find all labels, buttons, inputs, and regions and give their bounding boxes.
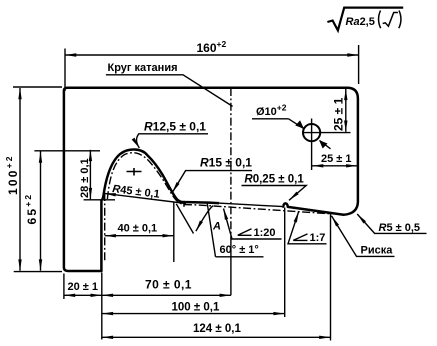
svg-text:124 ± 0,1: 124 ± 0,1 <box>193 323 241 335</box>
dim 160 extension right <box>358 45 360 84</box>
svg-text:R12,5 ± 0,1: R12,5 ± 0,1 <box>144 120 206 134</box>
svg-text:R15 ± 0,1: R15 ± 0,1 <box>200 156 252 170</box>
dim 100+2 extension top <box>13 86 62 88</box>
leader 60deg label / V-groove right edge <box>207 202 216 257</box>
leader Krug kataniya <box>106 75 233 107</box>
dim 100+2 / 65+2 extension bottom <box>14 271 62 273</box>
rail profile (dash-dot inner line) <box>107 153 330 214</box>
leader 1:20 <box>224 209 282 240</box>
dim 28 line <box>89 150 91 199</box>
dim 65+2 extension top <box>34 150 100 152</box>
dim 70 line <box>102 294 231 296</box>
svg-text:28 ± 0,1: 28 ± 0,1 <box>79 158 91 198</box>
svg-text:100+2: 100+2 <box>4 154 20 195</box>
dim 25 vertical line <box>345 89 347 132</box>
dim 65+2 line <box>40 152 42 271</box>
svg-text:40 ± 0,1: 40 ± 0,1 <box>118 223 158 235</box>
tick mark A target <box>183 201 185 207</box>
center mark R12,5 <box>127 168 142 176</box>
leader hole dia opposite arrow <box>320 141 331 149</box>
leader R0,25 <box>242 186 307 201</box>
leader R15 <box>172 171 252 193</box>
V-groove left edge <box>176 204 193 234</box>
leader Riska <box>332 216 395 256</box>
svg-text:25 ± 1: 25 ± 1 <box>332 97 346 131</box>
svg-text:Риска: Риска <box>361 245 394 257</box>
leader 1:7 <box>288 211 327 244</box>
svg-text:R0,25 ± 0,1: R0,25 ± 0,1 <box>244 174 304 186</box>
dim 100+2 line <box>19 88 21 271</box>
leader R5 <box>357 214 426 233</box>
dim 20 extension left <box>63 274 65 300</box>
svg-text:1:20: 1:20 <box>254 227 276 239</box>
dim 160 extension left <box>64 49 66 92</box>
dim 40 extension right <box>173 203 175 263</box>
svg-text:65+2: 65+2 <box>23 193 39 225</box>
svg-text:25 ± 1: 25 ± 1 <box>321 153 352 165</box>
dim 124 line <box>102 336 331 338</box>
riska tick <box>329 212 332 217</box>
svg-text:20 ± 1: 20 ± 1 <box>68 281 99 293</box>
svg-text:100 ± 0,1: 100 ± 0,1 <box>172 302 220 314</box>
surface 1:20 thin segment <box>209 203 283 207</box>
svg-text:160+2: 160+2 <box>197 39 227 55</box>
dim 40 line <box>105 235 174 237</box>
part outline (rail template profile) <box>64 88 358 271</box>
dim 100 line <box>102 313 285 315</box>
slope symbol 1:20 <box>238 229 252 236</box>
svg-text:Круг катания: Круг катания <box>108 62 178 74</box>
dim 160 line <box>65 54 359 56</box>
underline 60deg <box>216 256 264 258</box>
centerline hump left tangent (dash-dot vertical) <box>104 193 106 262</box>
svg-text:R45 ± 0,1: R45 ± 0,1 <box>112 183 161 201</box>
svg-text:70 ± 0,1: 70 ± 0,1 <box>145 278 192 292</box>
hole circle <box>303 124 320 141</box>
hole centerline vertical <box>311 119 313 171</box>
centerline rolling circle (dash-dot vertical) <box>230 88 232 240</box>
leader hole dia <box>289 119 304 129</box>
surface finish symbol <box>327 8 403 31</box>
dim 20/70/100/124 extension at x=102 <box>101 273 103 340</box>
svg-text:Ø10+2: Ø10+2 <box>256 103 287 119</box>
svg-text:R5 ± 0,5: R5 ± 0,5 <box>379 222 421 234</box>
leader hole dia underline <box>252 118 289 120</box>
leader R12,5 <box>137 134 208 148</box>
hole centerline horizontal / dim 25 vertical extension <box>303 132 351 134</box>
dim 124 extension right <box>330 216 332 341</box>
dim 20 line <box>64 294 102 296</box>
svg-text:60° ± 1°: 60° ± 1° <box>220 244 259 256</box>
angle arc 60deg <box>196 206 213 232</box>
dim 28 extension bottom <box>84 199 115 201</box>
slope symbol 1:7 <box>293 234 307 241</box>
dim 25 horizontal line <box>312 165 357 167</box>
dim 100 extension right <box>284 208 286 318</box>
svg-text:Ra2,5: Ra2,5 <box>346 16 375 28</box>
svg-text:А: А <box>212 221 221 233</box>
surface 1:20 thin segment cover <box>219 203 282 207</box>
svg-text:1:7: 1:7 <box>310 232 326 244</box>
leader R45 <box>105 193 187 203</box>
